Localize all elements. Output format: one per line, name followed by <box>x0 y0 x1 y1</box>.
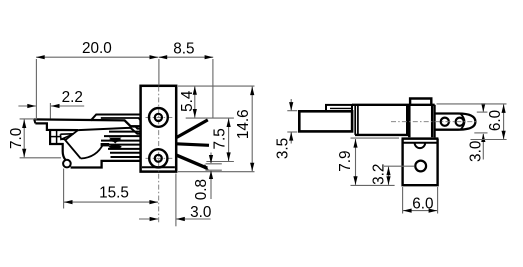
housing left step <box>50 130 65 160</box>
upper mounting hole outer <box>149 108 168 127</box>
lower mounting hole inner <box>155 155 162 162</box>
lower block notch semicircle <box>415 143 426 148</box>
dim 3.0 bottom right leader <box>176 218 210 220</box>
spring anchor flag <box>60 134 73 140</box>
dim 2.2 extension right <box>49 103 51 119</box>
lever arm top edge <box>34 119 140 128</box>
svg-text:6.0: 6.0 <box>412 195 433 212</box>
lower mounting hole outer <box>149 149 167 167</box>
dim 3.0 right lower leader <box>482 134 484 160</box>
dim 14.6 line <box>251 87 253 172</box>
button cap <box>410 99 431 105</box>
dim 2.2 left leader <box>18 105 36 107</box>
dim 8.5 extension right <box>212 59 214 118</box>
housing anchor ledge <box>50 136 60 138</box>
dim 3.0 bottom extension right <box>175 174 177 227</box>
lower block flange <box>402 137 439 140</box>
dim 6.0 bottom line <box>403 210 437 212</box>
tab hole left <box>441 118 449 126</box>
dim 0.8 extension lower <box>206 169 222 171</box>
terminal tab inner arc <box>461 114 465 130</box>
dim 7.5 extension bottom <box>206 161 234 163</box>
upper mounting hole inner <box>155 114 162 121</box>
dim 6.0 right extension top <box>437 103 507 105</box>
dim 3.0 right extension top <box>477 111 488 113</box>
dim 7.0 line <box>23 119 25 157</box>
svg-text:3.0: 3.0 <box>467 141 484 162</box>
spring plate (right view) <box>326 105 352 111</box>
svg-text:0.8: 0.8 <box>193 179 210 200</box>
dim 5.4 extension bottom <box>186 117 234 119</box>
dim 6.0/3.0 right shared bottom extension <box>471 139 507 141</box>
dim 2.2 right leader <box>51 105 84 107</box>
body top edge (right view) <box>352 104 435 106</box>
horizontal centerline (right view) <box>391 121 477 123</box>
dim 3.2 extension top <box>384 165 415 167</box>
dim 7.9 extension top <box>351 137 400 139</box>
dim 3.5 tick bottom <box>287 131 297 133</box>
flat spring upper leaf <box>91 115 140 121</box>
movable contact stack <box>109 138 122 150</box>
svg-text:6.0: 6.0 <box>487 110 504 131</box>
dim 7.0 extension top <box>20 118 37 120</box>
center block (right view) <box>409 105 432 138</box>
dim 3.2 line <box>388 167 390 185</box>
lower hole centerline <box>146 157 173 159</box>
upper hole centerline <box>146 116 173 118</box>
svg-text:3.0: 3.0 <box>190 204 211 221</box>
terminal pin bottom <box>176 155 207 168</box>
svg-text:7.5: 7.5 <box>212 128 229 149</box>
dim 8.5 line <box>159 56 214 58</box>
terminal plate stack <box>101 126 140 157</box>
tab hole right <box>456 118 464 126</box>
dim 0.8 upper leader <box>210 153 212 164</box>
lower block body <box>403 139 438 186</box>
housing inner wall <box>56 131 58 144</box>
flat spring second leaf <box>101 118 141 121</box>
lever arm bottom edge <box>35 123 78 130</box>
dim 14.6 extension top <box>178 85 255 87</box>
body left edge inner <box>357 105 359 135</box>
dim 3.0 right extension bottom <box>474 132 487 134</box>
dim 0.8 lower leader <box>210 171 212 199</box>
dim 3.5 tick top <box>287 110 297 112</box>
lower block inner line <box>403 142 438 144</box>
lever arm left tip <box>34 119 35 123</box>
dim 7.9 line <box>355 139 357 185</box>
roller wheel <box>63 160 71 168</box>
center block right edge <box>434 105 436 138</box>
block vertical centerline <box>158 87 160 225</box>
dim 7.9/3.2 extension bottom <box>351 184 395 186</box>
mounting block body <box>141 86 177 172</box>
spring plate inner line <box>330 107 352 109</box>
svg-text:2.2: 2.2 <box>62 89 83 106</box>
dim 7.5 line <box>228 118 230 161</box>
dim 0.8 extension upper <box>206 163 222 165</box>
lever arm lower rear edge <box>78 128 140 134</box>
svg-text:7.0: 7.0 <box>8 128 25 149</box>
dim 20.0 extension left <box>35 59 37 119</box>
dim 3.0 right upper leader <box>482 104 484 111</box>
dim 6.0 right line <box>503 104 505 139</box>
dim 3.5 upper leader <box>290 99 292 110</box>
svg-text:5.4: 5.4 <box>179 90 196 112</box>
housing bottom edge <box>71 161 141 168</box>
terminal pin middle <box>176 144 209 146</box>
dim 20.0/8.5 shared extension <box>158 59 160 86</box>
terminal pin top <box>176 120 208 138</box>
body (right view) <box>355 105 407 135</box>
svg-text:3.5: 3.5 <box>275 138 292 159</box>
dim 20.0 line <box>36 56 158 58</box>
dim 15.5 line <box>64 201 158 203</box>
lever bar (right view) <box>299 111 352 131</box>
svg-text:14.6: 14.6 <box>235 109 252 139</box>
dim 6.0 bottom extension right <box>437 187 439 214</box>
dim 15.5 extension left <box>63 169 65 209</box>
leaf spring arc <box>81 143 104 158</box>
body left edge outer <box>354 105 356 135</box>
dim 7.0 extension bottom <box>20 157 61 159</box>
svg-text:20.0: 20.0 <box>82 40 112 57</box>
dim 3.5 lower leader <box>290 133 292 144</box>
spring zigzag link <box>65 130 81 159</box>
dim 3.0 bottom left leader <box>139 218 158 220</box>
dim 5.4 line <box>194 86 196 117</box>
svg-text:7.9: 7.9 <box>337 150 354 171</box>
svg-text:3.2: 3.2 <box>370 164 387 185</box>
svg-text:15.5: 15.5 <box>99 185 129 202</box>
lower block hole <box>415 161 426 172</box>
terminal tab (right view) <box>435 114 476 130</box>
dim 14.6 extension bottom <box>178 171 255 173</box>
mounting block inner bottom line <box>142 166 175 168</box>
dim 6.0 bottom extension left <box>402 187 404 214</box>
svg-text:8.5: 8.5 <box>173 40 194 57</box>
contact bar <box>101 143 110 146</box>
